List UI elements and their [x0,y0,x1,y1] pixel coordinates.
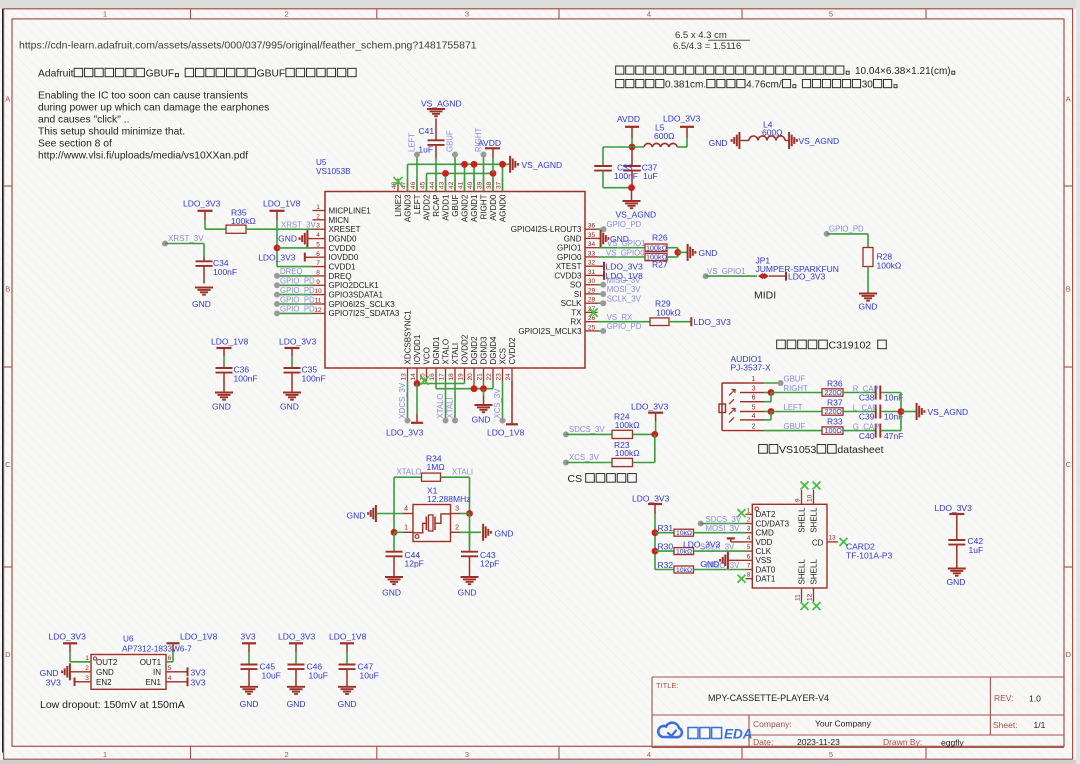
svg-text:46: 46 [410,181,417,189]
svg-text:R32: R32 [658,560,674,570]
svg-text:GND: GND [700,559,719,569]
svg-text:D: D [1066,650,1072,659]
svg-text:SHELL: SHELL [797,507,806,533]
svg-text:3V3: 3V3 [191,677,206,687]
svg-text:19: 19 [458,373,465,381]
svg-text:LDO_3V3: LDO_3V3 [279,337,317,347]
svg-text:SDCS_3V: SDCS_3V [706,515,742,524]
svg-text:100nF: 100nF [234,374,258,384]
svg-text:XRESET: XRESET [329,225,361,234]
svg-text:AP7312-1833W6-7: AP7312-1833W6-7 [122,644,192,653]
svg-text:DAT2: DAT2 [756,510,776,519]
svg-text:DGND2: DGND2 [470,336,479,365]
svg-text:10kΩ: 10kΩ [676,567,692,574]
svg-text:VS_AGND: VS_AGND [522,160,563,170]
svg-text:LDO_3V3: LDO_3V3 [386,428,424,438]
svg-text:DREQ: DREQ [329,272,352,281]
svg-text:LDO_1V8: LDO_1V8 [180,632,218,642]
svg-text:DGND1: DGND1 [432,336,441,365]
svg-text:5: 5 [829,750,833,759]
svg-text:23: 23 [496,373,503,381]
svg-text:GPIO_PD: GPIO_PD [607,322,642,331]
svg-text:4: 4 [752,413,756,420]
svg-text:GND: GND [699,248,718,258]
svg-text:5: 5 [168,665,172,672]
svg-text:1: 1 [404,525,408,532]
svg-text:Date:: Date: [753,737,773,747]
svg-text:9: 9 [795,498,802,502]
svg-text:5: 5 [316,241,320,248]
svg-text:XTALO: XTALO [436,394,445,419]
svg-text:2: 2 [455,525,459,532]
svg-text:220Ω: 220Ω [825,388,843,397]
svg-text:C: C [5,460,11,469]
svg-text:3: 3 [465,750,469,759]
svg-text:3: 3 [465,10,469,19]
svg-text:2: 2 [285,750,289,759]
svg-text:1.0: 1.0 [1029,694,1041,704]
svg-text:RIGHT: RIGHT [479,194,488,219]
svg-text:VSS: VSS [756,556,772,565]
svg-text:LDO_3V3: LDO_3V3 [694,317,732,327]
svg-text:GPIO4I2S-LROUT3: GPIO4I2S-LROUT3 [511,225,582,234]
svg-text:LDO_3V3: LDO_3V3 [183,199,221,209]
svg-text:GBUF: GBUF [257,69,286,80]
svg-text:DREQ: DREQ [280,267,303,276]
svg-text:VS_GPIO0: VS_GPIO0 [606,248,645,257]
svg-text:IOVDD2: IOVDD2 [460,334,469,364]
svg-text:AGND1: AGND1 [470,194,479,222]
svg-text:DAT1: DAT1 [756,575,776,584]
svg-text:11: 11 [795,594,802,601]
svg-text:R30: R30 [658,541,674,551]
svg-text:GND: GND [212,402,231,412]
svg-text:XDCSBSYNC1: XDCSBSYNC1 [403,310,412,365]
svg-text:LINE2: LINE2 [394,194,403,217]
svg-text:http://www.vlsi.fi/uploads/med: http://www.vlsi.fi/uploads/media/vs10XXa… [38,151,248,162]
svg-text:1: 1 [316,204,320,211]
svg-text:AVDD1: AVDD1 [441,194,450,221]
svg-text:A: A [5,95,10,104]
svg-text:GPIO1: GPIO1 [557,244,582,253]
svg-text:100kΩ: 100kΩ [646,253,668,262]
svg-text:GPIO_PD: GPIO_PD [280,295,315,304]
svg-text:C319102: C319102 [829,340,872,352]
svg-text:31: 31 [588,269,596,276]
svg-text:100kΩ: 100kΩ [615,420,640,430]
svg-text:21: 21 [477,373,484,381]
svg-text:XCS_3V: XCS_3V [493,388,502,419]
svg-text:12pF: 12pF [405,559,424,569]
svg-text:See section 8 of: See section 8 of [38,139,112,150]
svg-text:5: 5 [829,10,833,19]
svg-text:TX: TX [571,308,582,317]
svg-text:600Ω: 600Ω [654,131,675,141]
svg-text:40: 40 [467,181,474,189]
svg-text:9: 9 [316,279,320,286]
svg-text:20: 20 [467,373,474,381]
svg-text:AVDD: AVDD [617,114,640,124]
svg-text:PJ-3537-X: PJ-3537-X [731,363,771,373]
svg-text:A: A [1066,95,1071,104]
svg-text:C40: C40 [859,431,875,441]
svg-text:R36: R36 [827,378,843,388]
svg-text:0.381cm.: 0.381cm. [665,80,706,91]
svg-text:LDO_3V3: LDO_3V3 [632,494,670,504]
svg-text:MISO_3V: MISO_3V [607,276,642,285]
svg-text:MICN: MICN [329,216,350,225]
svg-text:GPIO_PD: GPIO_PD [280,305,315,314]
svg-text:XCS: XCS [498,348,507,364]
svg-text:36: 36 [588,223,596,230]
svg-text:IOVDD1: IOVDD1 [413,334,422,364]
svg-text:VS1053: VS1053 [779,444,817,456]
svg-text:R31: R31 [658,523,674,533]
svg-text:6: 6 [168,655,172,662]
svg-text:1uF: 1uF [643,171,658,181]
svg-text:3: 3 [752,386,756,393]
svg-text:4: 4 [747,535,751,542]
svg-text:1: 1 [103,750,107,759]
svg-text:U6: U6 [123,635,134,644]
svg-text:during power up which can dama: during power up which can damage the ear… [38,103,269,114]
svg-text:CD/DAT3: CD/DAT3 [756,519,790,528]
svg-text:VS_AGND: VS_AGND [928,407,969,417]
svg-text:7: 7 [747,563,751,570]
svg-text:38: 38 [486,181,493,189]
svg-text:D: D [5,650,11,659]
svg-text:Adafruit: Adafruit [38,69,74,80]
svg-text:R33: R33 [827,416,843,426]
svg-text:VS_AGND: VS_AGND [799,136,840,146]
svg-text:AVDD2: AVDD2 [422,194,431,221]
svg-text:R37: R37 [827,397,843,407]
svg-text:1/1: 1/1 [1034,720,1046,730]
svg-text:10uF: 10uF [309,670,328,680]
svg-text:B: B [5,285,10,294]
svg-text:7: 7 [316,260,320,267]
svg-text:GND: GND [278,234,297,244]
svg-text:datasheet: datasheet [837,444,883,456]
svg-text:100kΩ: 100kΩ [877,261,902,271]
svg-text:VDD: VDD [756,538,773,547]
svg-text:VS_GPIO1: VS_GPIO1 [607,239,646,248]
svg-text:GND: GND [192,299,211,309]
svg-text:8: 8 [316,269,320,276]
svg-text:DGND0: DGND0 [329,235,358,244]
svg-text:2: 2 [285,10,289,19]
svg-text:6: 6 [747,553,751,560]
svg-text:GPIO6I2S_SCLK3: GPIO6I2S_SCLK3 [329,300,396,309]
svg-text:14: 14 [410,373,417,381]
svg-text:XRST_3V: XRST_3V [281,220,316,229]
svg-text:LDO_3V3: LDO_3V3 [935,503,973,513]
svg-text:AVDD0: AVDD0 [489,194,498,221]
svg-text:XDCS_3V: XDCS_3V [398,382,407,418]
svg-text:100Ω: 100Ω [825,426,843,435]
svg-text:VS_AGND: VS_AGND [421,99,462,109]
svg-text:C: C [1066,460,1072,469]
svg-text:EN2: EN2 [96,678,112,687]
svg-text:MOSI_3V: MOSI_3V [706,524,741,533]
svg-text:32: 32 [588,260,596,267]
svg-text:1uF: 1uF [418,145,433,155]
svg-text:GBUF: GBUF [784,422,806,431]
svg-text:LDO_1V8: LDO_1V8 [487,428,525,438]
svg-text:30: 30 [862,80,874,91]
svg-text:13: 13 [401,373,408,381]
svg-text:42: 42 [448,181,455,189]
svg-text:MPY-CASSETTE-PLAYER-V4: MPY-CASSETTE-PLAYER-V4 [708,693,829,703]
svg-text:30: 30 [588,278,596,285]
svg-text:LDO_3V3: LDO_3V3 [278,632,316,642]
svg-text:https://cdn-learn.adafruit.com: https://cdn-learn.adafruit.com/assets/as… [19,40,477,52]
svg-text:35: 35 [588,232,596,239]
svg-text:OUT1: OUT1 [140,658,162,667]
svg-text:AGND0: AGND0 [498,194,507,222]
svg-text:6: 6 [752,395,756,402]
svg-text:17: 17 [439,373,446,381]
svg-text:GND: GND [859,302,878,312]
svg-text:LEFT: LEFT [413,194,422,214]
svg-text:13: 13 [828,534,836,541]
svg-text:2: 2 [752,424,756,431]
svg-text:SCLK: SCLK [561,299,583,308]
svg-text:3: 3 [747,526,751,533]
svg-text:GBUF: GBUF [451,194,460,216]
svg-text:3V3: 3V3 [241,632,256,642]
svg-text:VS1053B: VS1053B [316,167,351,176]
svg-text:IOVDD0: IOVDD0 [329,253,359,262]
svg-text:3: 3 [85,675,89,682]
svg-text:1: 1 [85,655,89,662]
svg-text:12: 12 [314,307,322,314]
svg-text:GPIO_PD: GPIO_PD [829,225,864,234]
svg-text:11: 11 [315,298,322,305]
svg-text:33: 33 [588,250,596,257]
svg-text:XTALO: XTALO [397,468,422,477]
svg-text:VS_RX: VS_RX [607,313,633,322]
svg-text:and causes "click" ..: and causes "click" .. [38,115,129,126]
svg-text:EN1: EN1 [145,678,161,687]
svg-text:10uF: 10uF [360,670,379,680]
svg-text:LDO_3V3: LDO_3V3 [258,252,296,262]
svg-text:XCS_3V: XCS_3V [569,453,600,462]
svg-text:SHELL: SHELL [809,559,818,585]
svg-text:CD: CD [812,538,824,547]
svg-text:Low dropout: 150mV at 150mA: Low dropout: 150mV at 150mA [40,699,185,711]
svg-text:5: 5 [752,405,756,412]
svg-text:100nF: 100nF [302,374,326,384]
svg-text:4: 4 [168,675,172,682]
svg-text:SHELL: SHELL [809,507,818,533]
svg-text:16: 16 [429,373,436,381]
svg-text:GND: GND [564,234,582,243]
svg-text:LDO_3V3: LDO_3V3 [49,632,87,642]
svg-text:220Ω: 220Ω [825,407,843,416]
svg-text:XTALO: XTALO [441,339,450,365]
svg-text:GND: GND [472,415,491,425]
svg-text:4: 4 [404,506,408,513]
svg-text:TF-101A-P3: TF-101A-P3 [846,551,893,561]
svg-text:2: 2 [316,213,320,220]
svg-text:TITLE:: TITLE: [656,681,679,690]
svg-text:22: 22 [486,373,493,381]
svg-text:28: 28 [588,297,596,304]
svg-text:47nF: 47nF [884,431,903,441]
svg-text:eggfly: eggfly [941,738,964,748]
svg-text:29: 29 [588,287,596,294]
svg-text:18: 18 [448,373,455,381]
svg-text:2: 2 [85,665,89,672]
svg-text:GBUF: GBUF [445,130,454,152]
svg-text:2: 2 [747,517,751,524]
svg-text:GND: GND [382,588,401,598]
svg-text:AGND2: AGND2 [460,194,469,222]
svg-text:25: 25 [588,324,596,331]
svg-text:100kΩ: 100kΩ [231,216,256,226]
svg-text:OUT2: OUT2 [96,658,118,667]
svg-text:Sheet:: Sheet: [993,720,1018,730]
svg-text:GPIO_PD: GPIO_PD [280,277,315,286]
svg-text:37: 37 [496,181,503,189]
svg-text:GBUF: GBUF [146,69,175,80]
svg-text:GND: GND [96,668,114,677]
svg-text:GND: GND [240,699,259,709]
svg-text:4: 4 [316,232,320,239]
svg-text:LDO_1V8: LDO_1V8 [329,632,367,642]
svg-text:B: B [1066,285,1071,294]
svg-text:MIDI: MIDI [754,290,776,302]
svg-text:R26: R26 [652,233,668,243]
svg-text:VS_GPIO1: VS_GPIO1 [707,267,746,276]
svg-text:RX: RX [570,318,582,327]
svg-text:4: 4 [647,750,651,759]
svg-text:SDCS_3V: SDCS_3V [569,425,605,434]
svg-text:IN: IN [153,668,161,677]
svg-text:Company:: Company: [753,719,792,729]
svg-text:GND: GND [347,510,366,520]
svg-text:GND: GND [40,668,59,678]
svg-text:Your Company: Your Company [815,719,872,729]
svg-text:1: 1 [747,507,751,514]
svg-text:600Ω: 600Ω [762,128,783,138]
svg-text:DAT0: DAT0 [756,565,776,574]
svg-text:10kΩ: 10kΩ [676,530,692,537]
svg-text:RCAP: RCAP [432,194,441,216]
svg-text:12.288MHz: 12.288MHz [427,494,470,504]
svg-text:MOSI_3V: MOSI_3V [607,285,642,294]
svg-text:XRST_3V: XRST_3V [168,234,204,243]
svg-text:10: 10 [314,288,322,295]
svg-text:6.5 x 4.3 cm: 6.5 x 4.3 cm [675,30,727,41]
svg-text:GND: GND [709,138,728,148]
svg-text:CVDD2: CVDD2 [508,337,517,365]
svg-text:CVDD3: CVDD3 [554,271,582,280]
svg-text:44: 44 [429,181,436,189]
svg-text:SCLK_3V: SCLK_3V [607,295,642,304]
svg-text:C41: C41 [419,126,435,136]
svg-text:12: 12 [807,593,814,601]
svg-text:100nF: 100nF [213,267,237,277]
svg-text:C39: C39 [859,412,875,422]
svg-text:24: 24 [505,373,512,381]
svg-text:1: 1 [103,10,107,19]
svg-text:GPIO_PD: GPIO_PD [280,286,315,295]
svg-text:6: 6 [316,251,320,258]
svg-text:LDO_3V3: LDO_3V3 [663,114,701,124]
svg-text:45: 45 [420,181,427,189]
svg-text:DGND4: DGND4 [489,336,498,365]
svg-text:34: 34 [588,241,596,248]
svg-text:1uF: 1uF [969,545,984,555]
svg-text:VS_AGND: VS_AGND [616,210,657,220]
svg-text:10.04×6.38×1.21(cm): 10.04×6.38×1.21(cm) [855,66,951,77]
svg-text:Enabling the IC too soon can c: Enabling the IC too soon can cause trans… [38,91,248,102]
svg-text:GND: GND [287,699,306,709]
svg-text:AGND3: AGND3 [403,194,412,222]
svg-text:3: 3 [455,506,459,513]
svg-text:GND: GND [458,588,477,598]
svg-text:4.76cm/: 4.76cm/ [746,80,782,91]
svg-text:GPIO2DCLK1: GPIO2DCLK1 [329,281,380,290]
svg-text:GBUF: GBUF [784,374,806,383]
svg-text:RIGHT: RIGHT [784,384,808,393]
svg-text:LDO_1V8: LDO_1V8 [211,337,249,347]
svg-text:SHELL: SHELL [797,559,806,585]
svg-text:DGND3: DGND3 [479,336,488,365]
svg-text:This setup should minimize tha: This setup should minimize that. [38,127,185,138]
svg-text:2023-11-23: 2023-11-23 [797,737,840,747]
svg-text:CVDD0: CVDD0 [329,244,357,253]
svg-text:4: 4 [647,10,651,19]
svg-text:SO: SO [570,281,582,290]
svg-text:10: 10 [807,494,814,502]
svg-text:GND: GND [495,528,514,538]
svg-text:Drawn By:: Drawn By: [883,737,922,747]
svg-text:1: 1 [752,376,756,383]
svg-text:CVDD1: CVDD1 [329,263,357,272]
svg-text:GPIO7I2S_SDATA3: GPIO7I2S_SDATA3 [329,309,400,318]
svg-text:39: 39 [477,181,484,189]
svg-text:41: 41 [458,181,465,189]
svg-text:REV:: REV: [994,693,1014,703]
svg-text:LDO_1V8: LDO_1V8 [263,199,301,209]
svg-text:RIGHT: RIGHT [474,128,483,152]
svg-text:SI: SI [574,290,582,299]
svg-text:3V3: 3V3 [46,678,61,688]
svg-text:LDO_3V3: LDO_3V3 [631,402,669,412]
svg-text:GND: GND [947,577,966,587]
svg-text:1MΩ: 1MΩ [427,462,445,472]
svg-text:CS: CS [568,473,583,485]
svg-text:12pF: 12pF [480,559,499,569]
svg-text:MICPLINE1: MICPLINE1 [329,206,372,215]
svg-text:GPIO3SDATA1: GPIO3SDATA1 [329,291,384,300]
svg-text:XTEST: XTEST [556,262,582,271]
svg-text:43: 43 [439,181,446,189]
svg-text:3: 3 [316,223,320,230]
svg-text:100kΩ: 100kΩ [646,243,668,252]
svg-text:GND: GND [280,402,299,412]
svg-text:GPIOI2S_MCLK3: GPIOI2S_MCLK3 [518,327,582,336]
svg-text:6.5/4.3 = 1.5116: 6.5/4.3 = 1.5116 [673,41,741,52]
svg-text:GPIO0: GPIO0 [557,253,582,262]
svg-text:100kΩ: 100kΩ [615,448,640,458]
svg-text:3V3: 3V3 [191,667,206,677]
svg-text:5: 5 [747,544,751,551]
svg-text:XTALI: XTALI [445,397,454,418]
